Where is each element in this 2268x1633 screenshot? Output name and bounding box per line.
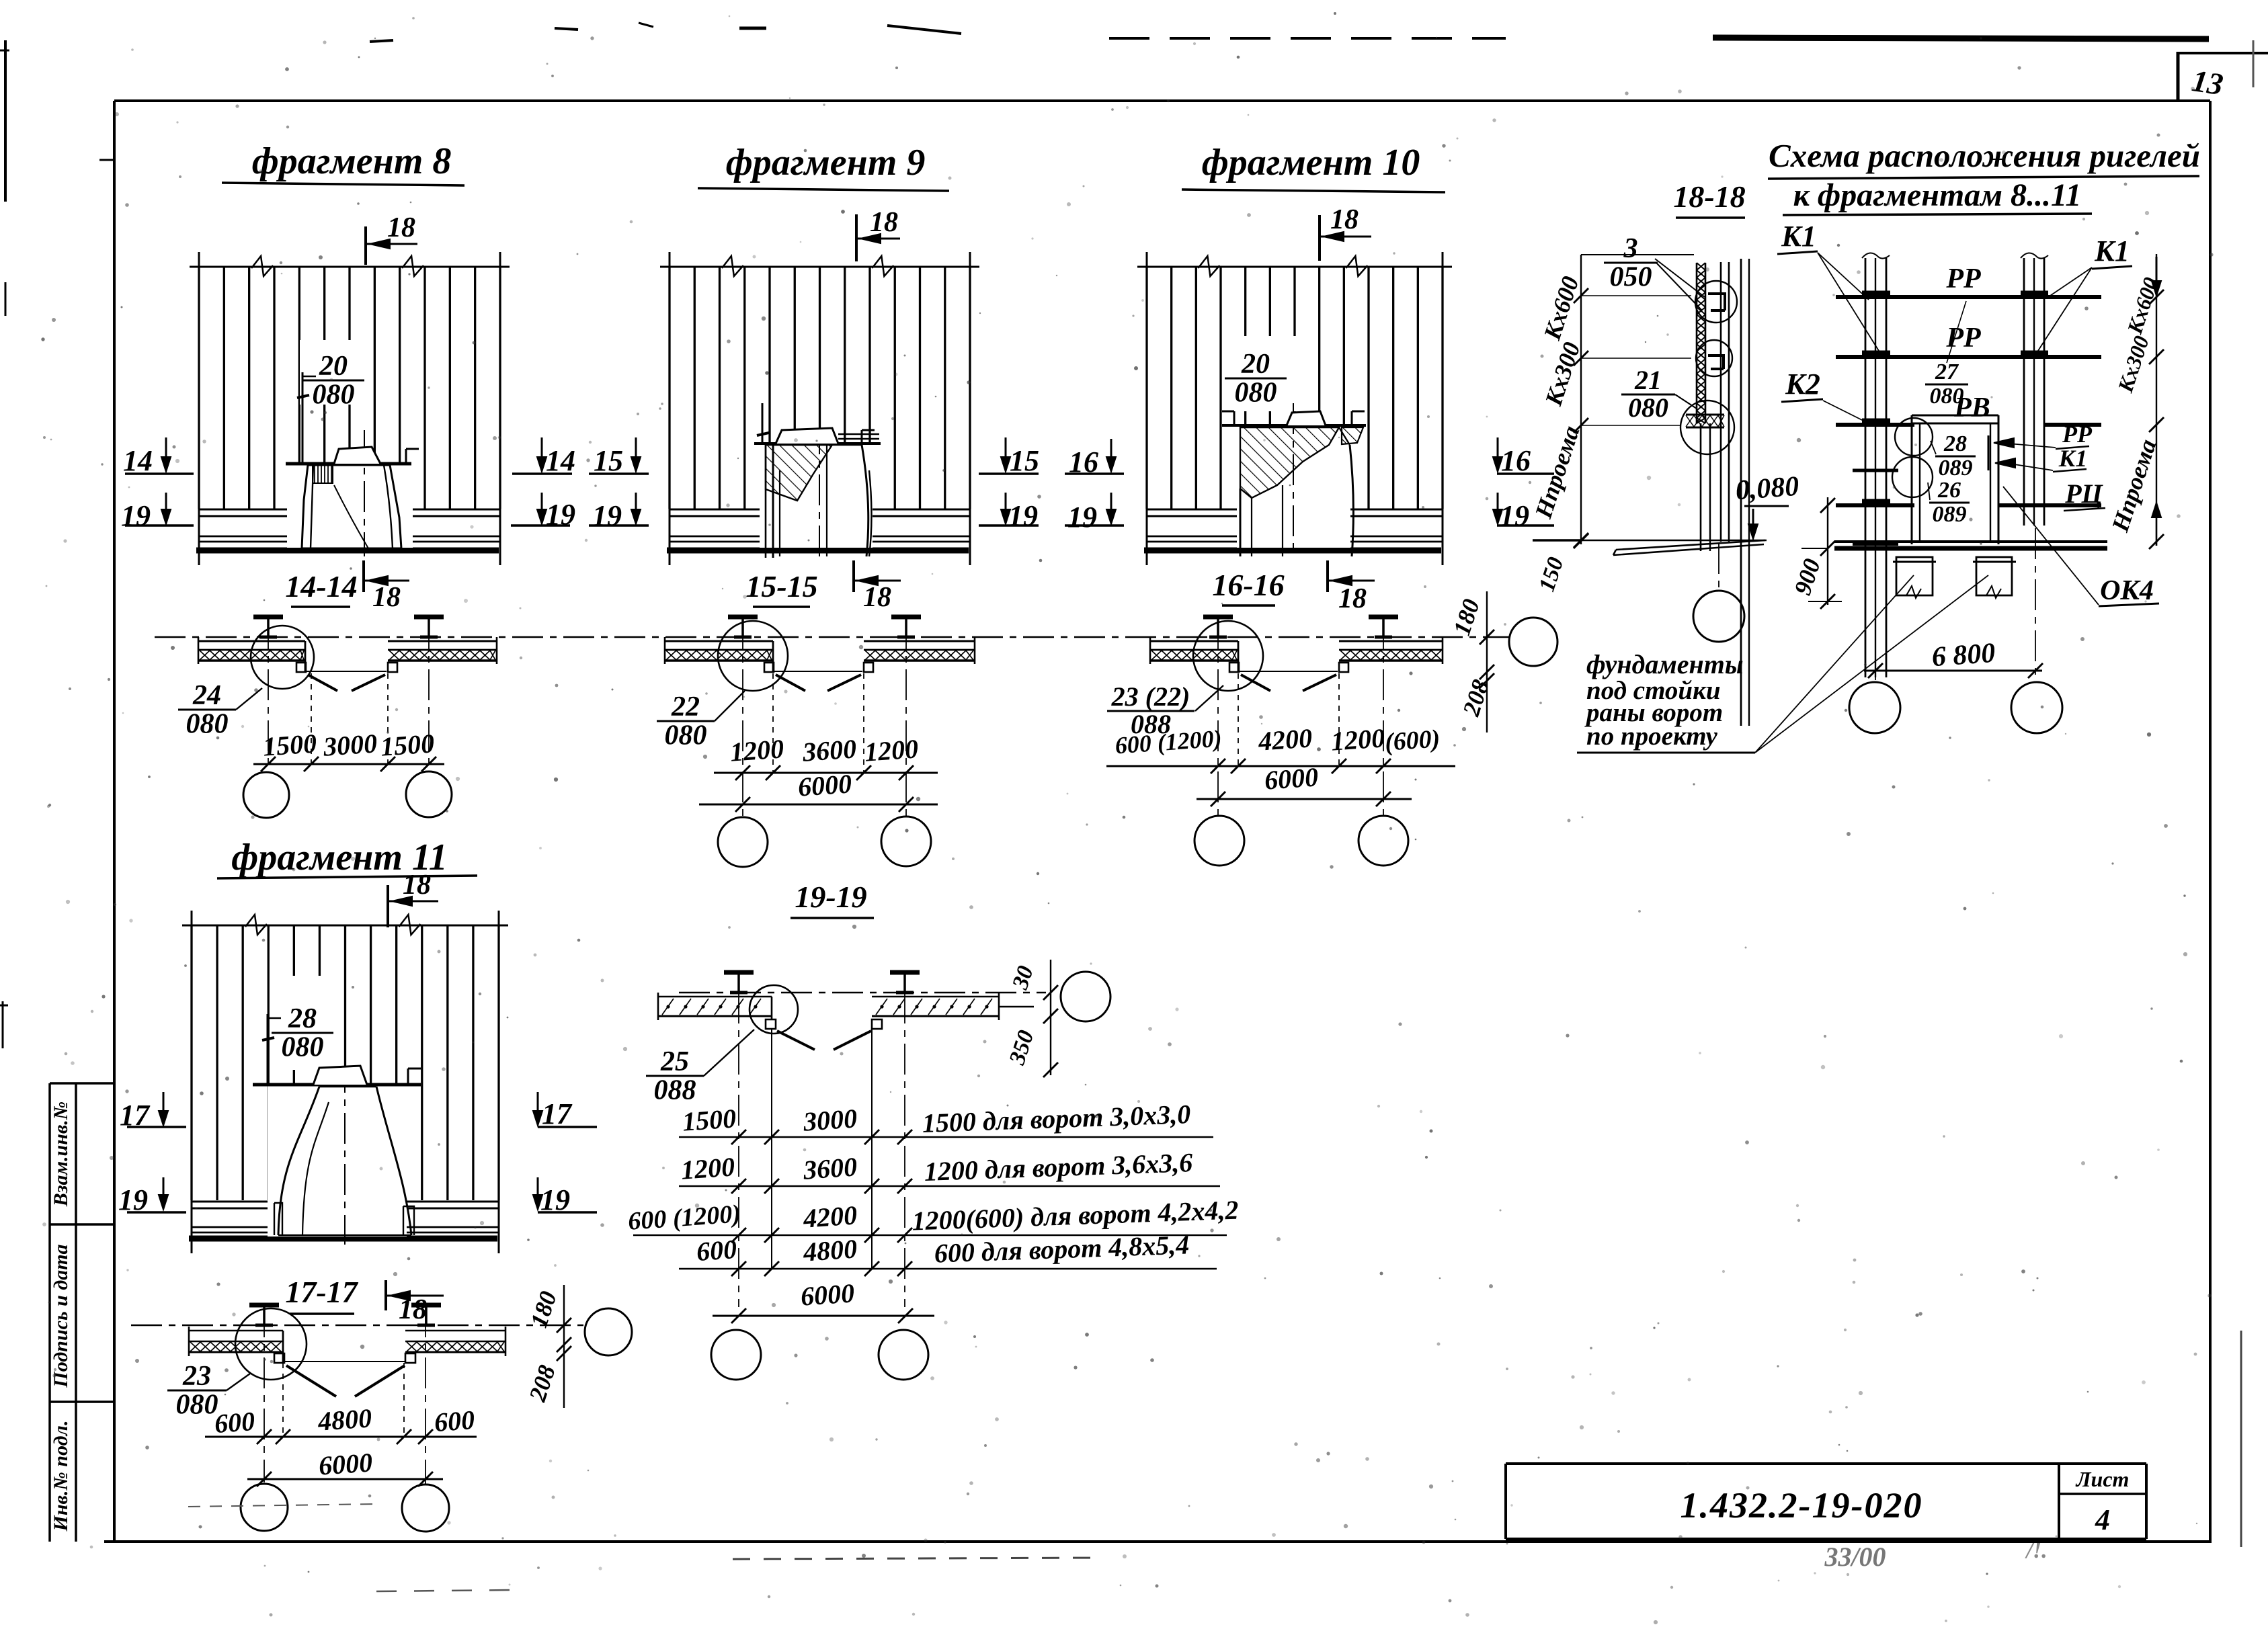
fragment 10 opening center axis <box>1293 403 1294 556</box>
schema foundation box B <box>1976 557 2012 595</box>
svg-text:15: 15 <box>1010 444 1039 477</box>
fragment 9 wall panel elevation <box>660 266 979 268</box>
fragment 9 lintel hatched area <box>766 445 832 501</box>
section 16-16 column circle B <box>1359 816 1408 866</box>
section 18-18 detail circle 3 <box>1680 401 1734 454</box>
fragment 10 lintel hatched area <box>1240 427 1339 498</box>
svg-text:20: 20 <box>1241 349 1270 380</box>
fragment 10 door opening clearing <box>1237 427 1350 548</box>
scan top edge marks <box>370 40 393 42</box>
section 19-19 V leaders <box>777 1031 815 1050</box>
section 17-17 axis end circle <box>585 1308 632 1355</box>
svg-text:21: 21 <box>1634 365 1662 395</box>
section 15-15 dimension line <box>714 772 938 774</box>
fragment 8 corbel <box>334 447 380 464</box>
svg-text:18: 18 <box>1330 204 1359 235</box>
svg-text:1.432.2-19-020: 1.432.2-19-020 <box>1680 1485 1923 1525</box>
top right corner box of previous sheet <box>2177 52 2180 101</box>
fragment 9 jamb tick <box>762 403 764 444</box>
fragment 11 gate leaf <box>278 1087 411 1235</box>
svg-text:Лист: Лист <box>2075 1467 2130 1491</box>
svg-text:18: 18 <box>863 582 891 613</box>
fragment 8 gate leaf <box>302 465 401 548</box>
svg-text:26: 26 <box>1937 478 1961 503</box>
section 17-17 axis line <box>131 1325 583 1327</box>
svg-text:28: 28 <box>1943 431 1967 456</box>
schema column K1 left <box>1865 258 1867 677</box>
section 15-15 cut mark 18 <box>852 560 855 592</box>
svg-text:Подпись и дата: Подпись и дата <box>50 1244 72 1388</box>
svg-text:080: 080 <box>1235 377 1277 408</box>
section 17-17 axis drop lines <box>282 1363 284 1437</box>
axis end circle right <box>1509 618 1557 666</box>
svg-text:Схема расположения ригелей: Схема расположения ригелей <box>1769 137 2200 174</box>
svg-text:088: 088 <box>654 1075 696 1105</box>
schema right dim line <box>2156 254 2157 546</box>
svg-text:089: 089 <box>1939 456 1973 480</box>
fragment 10 section mark 18 top <box>1318 215 1321 261</box>
svg-text:6000: 6000 <box>800 1278 856 1311</box>
svg-text:Инв.№ подл.: Инв.№ подл. <box>50 1421 72 1532</box>
svg-text:Взам.инв.№: Взам.инв.№ <box>50 1101 72 1207</box>
section 14-14 column circle B <box>406 771 452 817</box>
section 17-17 slabs <box>249 1303 279 1308</box>
svg-text:1200: 1200 <box>1330 722 1386 756</box>
svg-text:1500: 1500 <box>262 728 318 761</box>
svg-text:14: 14 <box>123 444 153 477</box>
svg-text:080: 080 <box>313 379 355 410</box>
fragment 11 opening corner mark <box>407 1069 409 1085</box>
section 15-15 column circle A <box>718 817 768 867</box>
fragment 9 door opening clearing <box>760 445 873 548</box>
section 14-14 cut mark 18 <box>362 560 365 592</box>
svg-text:3000: 3000 <box>322 728 378 762</box>
svg-text:6000: 6000 <box>1264 761 1320 795</box>
section 18-18 column hatched strip <box>1696 263 1698 423</box>
svg-text:по проекту: по проекту <box>1586 722 1718 751</box>
section 18-18 wall panel lines <box>1720 262 1722 542</box>
section 17-17 detail circle <box>235 1308 307 1380</box>
schema axis drops <box>1875 551 1876 680</box>
svg-text:20: 20 <box>319 351 348 382</box>
fragment 11 section mark 18 top <box>387 885 389 927</box>
schema riser RC level <box>1836 503 1914 507</box>
section 18-18 detail circle 1 <box>1695 281 1737 323</box>
svg-text:К1: К1 <box>2094 235 2130 267</box>
svg-text:600: 600 <box>434 1405 476 1437</box>
fragment 9 opening center axis <box>819 423 820 556</box>
svg-text:/!.: /!. <box>2024 1538 2047 1563</box>
fragment 8 opening corner mark right <box>405 449 407 464</box>
svg-text:К1: К1 <box>1781 220 1816 253</box>
paper right edge <box>2240 1331 2242 1547</box>
schema column K1 right <box>2023 258 2025 526</box>
section 15-15 column circle B <box>881 816 931 866</box>
svg-text:4800: 4800 <box>317 1402 373 1437</box>
svg-text:16: 16 <box>1501 444 1531 477</box>
svg-text:1200: 1200 <box>680 1151 736 1185</box>
svg-text:16-16: 16-16 <box>1212 568 1284 602</box>
section 18-18 left dimension line <box>1580 255 1582 544</box>
fragment 9 lintel <box>754 442 881 445</box>
svg-text:4: 4 <box>2095 1503 2110 1536</box>
section 14-14 dimension line <box>253 763 444 765</box>
section 18-18 detail circle 2 <box>1696 340 1732 376</box>
svg-text:0,080: 0,080 <box>1734 471 1799 506</box>
svg-text:17: 17 <box>542 1097 573 1130</box>
svg-text:фрагмент 10: фрагмент 10 <box>1202 142 1420 183</box>
svg-text:15-15: 15-15 <box>745 569 817 603</box>
fold mark left margin <box>99 159 114 161</box>
svg-text:3: 3 <box>1623 233 1638 264</box>
svg-text:080: 080 <box>186 708 229 739</box>
svg-text:19: 19 <box>592 499 622 532</box>
fragment 11 wall panel elevation <box>182 925 508 927</box>
scan noise <box>753 255 756 259</box>
svg-text:19: 19 <box>1067 501 1097 534</box>
svg-text:050: 050 <box>1610 261 1652 292</box>
section 17-17 connecting line <box>285 1361 405 1362</box>
section 17-17 V leaders <box>286 1366 336 1396</box>
svg-text:14-14: 14-14 <box>285 569 357 603</box>
section 16-16 axis drop lines <box>1238 673 1239 766</box>
svg-text:18: 18 <box>372 582 401 613</box>
svg-text:19: 19 <box>1500 499 1529 532</box>
fragment 9 gate leaf <box>773 445 868 558</box>
section 17-17 dimension line <box>205 1436 477 1438</box>
schema left dim 900 <box>1827 497 1828 605</box>
svg-text:РР: РР <box>2062 421 2093 448</box>
svg-text:3000: 3000 <box>802 1103 858 1137</box>
section 17-17 column circle B <box>402 1484 449 1532</box>
svg-text:19-19: 19-19 <box>795 880 866 914</box>
fragment 11 corbel <box>313 1066 367 1085</box>
note leader lines to foundations <box>1755 575 1914 753</box>
section 15-15 slabs <box>728 615 758 620</box>
section 17-17 column circle A <box>241 1484 288 1531</box>
section 18-18 floor line <box>1533 539 1581 542</box>
section 19-19 column circle B <box>879 1330 928 1380</box>
section 19-19 table vertical lines <box>738 993 739 1307</box>
fragment 11 opening center axis <box>344 1062 346 1245</box>
svg-text:13: 13 <box>2190 63 2226 101</box>
section 16-16 slabs <box>1203 615 1233 620</box>
svg-text:18-18: 18-18 <box>1673 179 1745 214</box>
schema riser PP 1 <box>1836 295 2101 299</box>
svg-text:600: 600 <box>214 1406 256 1439</box>
svg-text:18: 18 <box>403 870 431 901</box>
section 14-14 axis drop lines <box>311 673 312 764</box>
left margin stamp boxes <box>48 1083 51 1542</box>
fragment 8 lintel <box>286 462 411 466</box>
svg-text:25: 25 <box>660 1046 689 1077</box>
schema small crossbars lower <box>1853 469 1898 472</box>
svg-text:089: 089 <box>1933 502 1967 527</box>
svg-text:1200: 1200 <box>729 733 785 767</box>
svg-text:6 800: 6 800 <box>1931 638 1996 673</box>
section 15-15 detail circle <box>718 621 788 691</box>
svg-text:14: 14 <box>546 444 575 477</box>
section 18-18 bracket details <box>1708 294 1725 310</box>
svg-text:28: 28 <box>288 1003 317 1034</box>
svg-text:6000: 6000 <box>318 1447 374 1480</box>
svg-text:18: 18 <box>1338 583 1367 614</box>
svg-text:4200: 4200 <box>1257 722 1313 757</box>
fragment 11 lintel <box>253 1083 421 1087</box>
svg-text:080: 080 <box>282 1032 324 1062</box>
section 19-19 slabs <box>724 970 754 975</box>
fragment 10 gate leaf <box>1240 445 1353 556</box>
svg-text:4800: 4800 <box>802 1233 858 1267</box>
fragment 8 door opening clearing <box>287 465 413 548</box>
svg-text:600: 600 <box>696 1234 738 1267</box>
section 18-18 axis circle <box>1718 543 1719 589</box>
fragment 8 jamb tick <box>302 372 304 462</box>
svg-text:фрагмент 8: фрагмент 8 <box>252 140 452 182</box>
svg-text:19: 19 <box>1008 499 1038 532</box>
svg-text:080: 080 <box>176 1389 218 1420</box>
section 16-16 column circle A <box>1194 816 1244 866</box>
svg-text:1500: 1500 <box>682 1103 737 1136</box>
svg-text:080: 080 <box>1628 392 1668 423</box>
fragment 10 lintel <box>1222 424 1366 427</box>
fragment 8 opening center axis <box>364 430 365 556</box>
svg-text:3600: 3600 <box>801 733 858 767</box>
fragment 9 opening corner mark <box>861 430 863 444</box>
svg-text:(600): (600) <box>1384 724 1441 757</box>
svg-text:23: 23 <box>182 1361 211 1392</box>
svg-text:РВ: РВ <box>1953 392 1990 423</box>
section 16-16 dimension line <box>1106 765 1455 767</box>
schema floor line <box>1834 540 2107 543</box>
fragment 11 jamb tick <box>267 1014 269 1083</box>
fragment 8 section mark 18 top <box>364 226 367 265</box>
fragment 10 wall panel elevation <box>1137 266 1452 268</box>
svg-text:6000: 6000 <box>797 768 853 802</box>
fragment 10 corbel <box>1287 411 1326 425</box>
drawing frame border <box>114 99 2210 102</box>
fragment 11 door opening clearing <box>268 1086 407 1237</box>
section 15-15 axis drop lines <box>772 673 774 773</box>
paper left edge marks <box>4 40 7 202</box>
section 16-16 cut mark 18 <box>1326 560 1329 592</box>
svg-text:33/00: 33/00 <box>1824 1542 1886 1572</box>
schema foundation box A <box>1896 557 1933 595</box>
section 18-18 lower column <box>1700 423 1702 551</box>
schema axis circle B <box>2011 682 2062 733</box>
svg-text:27: 27 <box>1935 360 1959 384</box>
schema detail circle 28 <box>1895 418 1933 456</box>
svg-text:к фрагментам 8...11: к фрагментам 8...11 <box>1793 177 2082 213</box>
section 19-19 axis end circle <box>1061 972 1110 1021</box>
schema door frame box <box>1912 415 1998 417</box>
svg-text:22: 22 <box>671 692 700 722</box>
section 19-19 detail circle <box>750 985 798 1034</box>
schema riser RV level <box>1836 423 1914 427</box>
svg-text:19: 19 <box>121 499 151 532</box>
section 19-19 axis line <box>679 992 1046 994</box>
svg-text:3600: 3600 <box>802 1151 858 1185</box>
svg-text:15: 15 <box>594 444 623 477</box>
svg-text:1200: 1200 <box>864 733 920 767</box>
svg-text:18: 18 <box>870 207 898 238</box>
svg-text:23 (22): 23 (22) <box>1111 681 1190 712</box>
svg-text:К2: К2 <box>1785 368 1820 401</box>
sections shared axis line <box>155 636 1509 638</box>
svg-text:4200: 4200 <box>802 1200 858 1234</box>
svg-text:фрагмент 9: фрагмент 9 <box>726 142 926 183</box>
fragment 9 corbel <box>776 428 838 444</box>
section 17-17 cut mark 18 <box>384 1280 387 1310</box>
svg-text:фундаменты: фундаменты <box>1586 649 1744 679</box>
schema detail circle 26 <box>1892 457 1933 497</box>
section 14-14 slabs <box>253 615 283 620</box>
scan smudge dashes bottom <box>188 1504 376 1507</box>
schema axis circle A <box>1849 682 1900 733</box>
section 14-14 detail circle <box>251 626 314 689</box>
section 16-16 detail circle <box>1193 621 1263 691</box>
schema riser PP 2 <box>1836 355 2101 359</box>
section 19-19 column circle A <box>711 1330 761 1380</box>
fragment 10 opening corner marks <box>1233 411 1236 425</box>
fragment 8 wall panel elevation <box>190 266 510 268</box>
svg-text:К1: К1 <box>2058 445 2087 472</box>
fragment 8 gate hatch patch <box>313 465 333 483</box>
title block box <box>1506 1462 2146 1465</box>
svg-text:18: 18 <box>387 212 415 243</box>
svg-text:17-17: 17-17 <box>285 1275 358 1309</box>
svg-text:080: 080 <box>665 720 707 751</box>
section 14-14 column circle A <box>243 772 289 818</box>
svg-text:РР: РР <box>1945 263 1981 294</box>
svg-text:24: 24 <box>192 680 221 711</box>
fragment 9 section mark 18 top <box>855 214 858 261</box>
svg-text:18: 18 <box>399 1294 427 1325</box>
